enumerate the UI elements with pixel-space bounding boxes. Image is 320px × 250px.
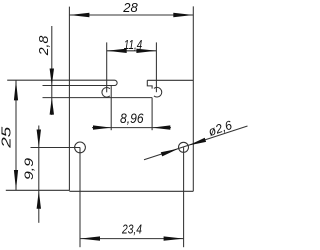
svg-text:23,4: 23,4 — [121, 222, 142, 237]
svg-text:25: 25 — [0, 126, 14, 150]
svg-text:2,8: 2,8 — [36, 35, 51, 56]
svg-text:ø2,6: ø2,6 — [207, 118, 234, 139]
svg-text:28: 28 — [122, 0, 138, 15]
svg-text:11,4: 11,4 — [124, 37, 143, 52]
svg-text:9,9: 9,9 — [22, 158, 36, 180]
svg-text:8,96: 8,96 — [120, 111, 144, 126]
